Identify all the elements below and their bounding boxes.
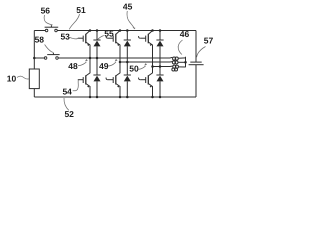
inductor coil V (motor winding row2) <box>170 61 186 64</box>
wire top rail (positive line 51) <box>57 30 196 32</box>
leader lines <box>17 11 206 110</box>
wire phase line W (node P3) <box>153 66 171 68</box>
node bottom rail junctions <box>89 96 162 99</box>
wire bottom rail <box>34 96 196 98</box>
node neutral junction <box>184 61 187 64</box>
wire battery top lead <box>33 31 35 70</box>
node top rail junctions <box>89 29 162 32</box>
svg-text:58: 58 <box>35 34 45 44</box>
diode D1 upper 55 <box>93 31 100 59</box>
svg-text:57: 57 <box>204 35 214 45</box>
svg-text:46: 46 <box>180 29 190 39</box>
leader 49 (arrow) <box>108 62 116 66</box>
leader 56 <box>44 15 52 25</box>
transistor Q1 upper-left IGBT 53 <box>78 31 90 59</box>
leader 10 <box>17 76 29 79</box>
leader 54 <box>73 80 79 91</box>
leader 51 <box>69 14 79 29</box>
leader 50 (arrow) <box>138 66 145 69</box>
transistor Q2 upper-middle IGBT <box>106 31 120 63</box>
transistor Q5 lower-middle IGBT <box>106 62 120 97</box>
svg-text:49: 49 <box>99 61 109 71</box>
svg-text:50: 50 <box>129 63 139 73</box>
leader 53 <box>70 37 79 39</box>
svg-text:56: 56 <box>41 6 51 16</box>
wire phase line U (node P1) <box>58 57 170 59</box>
leader 45 arrowhead <box>133 27 136 29</box>
leader 58 <box>45 45 53 53</box>
node phase junctions <box>89 57 162 68</box>
svg-text:53: 53 <box>60 32 70 42</box>
svg-text:45: 45 <box>123 2 133 12</box>
svg-text:10: 10 <box>7 73 17 83</box>
inductor coil U (motor winding 46 row1) <box>170 57 186 60</box>
diode D4 lower <box>93 58 100 97</box>
wire phase line V (node P2) <box>120 61 170 63</box>
capacitor C57 <box>189 31 204 98</box>
wire battery bottom lead <box>33 89 35 97</box>
svg-text:51: 51 <box>76 5 86 15</box>
svg-text:55: 55 <box>104 29 114 39</box>
inductor coil W (motor winding row3) <box>170 65 186 71</box>
svg-text:52: 52 <box>64 109 74 119</box>
transistor Q4 lower-left IGBT 54 <box>78 58 90 97</box>
node battery-relay58 junction <box>33 57 36 60</box>
relay 58 <box>34 53 59 60</box>
diode D3 upper <box>156 31 163 67</box>
transistor Q3 upper-right IGBT <box>139 31 153 67</box>
relay 56 <box>34 25 58 32</box>
diode D6 lower <box>156 67 163 98</box>
battery 10 <box>29 69 39 89</box>
svg-text:54: 54 <box>62 86 72 96</box>
diode D2 upper <box>124 31 131 63</box>
svg-text:48: 48 <box>68 61 78 71</box>
leader 55 <box>98 36 104 40</box>
diode D5 lower <box>124 62 131 97</box>
leader 52 <box>64 98 69 110</box>
leader 48 (arrow) <box>78 62 86 66</box>
transistor Q6 lower-right IGBT 50 <box>139 67 153 98</box>
leader 57 <box>197 47 206 58</box>
leader 45 <box>127 11 134 28</box>
leader 46 <box>178 40 182 55</box>
wire neutral bar of windings <box>185 57 187 67</box>
